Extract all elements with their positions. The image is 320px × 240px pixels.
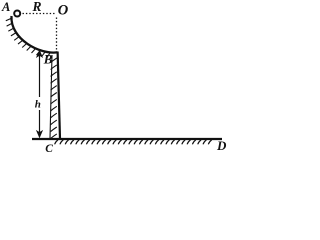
ground hatching <box>55 140 212 144</box>
wall hatching <box>51 58 57 139</box>
wall left edge <box>50 55 52 139</box>
svg-text:h: h <box>35 99 41 111</box>
svg-text:D: D <box>216 138 227 153</box>
dotted vertical line O to B <box>56 18 58 51</box>
ball at A <box>14 11 20 17</box>
svg-text:C: C <box>45 143 53 155</box>
svg-text:O: O <box>58 3 69 19</box>
dimension arrowhead top <box>36 50 43 59</box>
curved ramp arc A to B <box>11 16 57 53</box>
height dimension line h <box>39 54 41 135</box>
ground line C to D <box>32 138 222 140</box>
wall right edge <box>58 52 60 140</box>
svg-text:R: R <box>32 0 42 14</box>
ramp hatching <box>6 18 51 57</box>
svg-text:A: A <box>1 0 10 14</box>
dotted radius line A to O <box>23 13 56 15</box>
dimension arrowhead bottom <box>36 130 43 139</box>
